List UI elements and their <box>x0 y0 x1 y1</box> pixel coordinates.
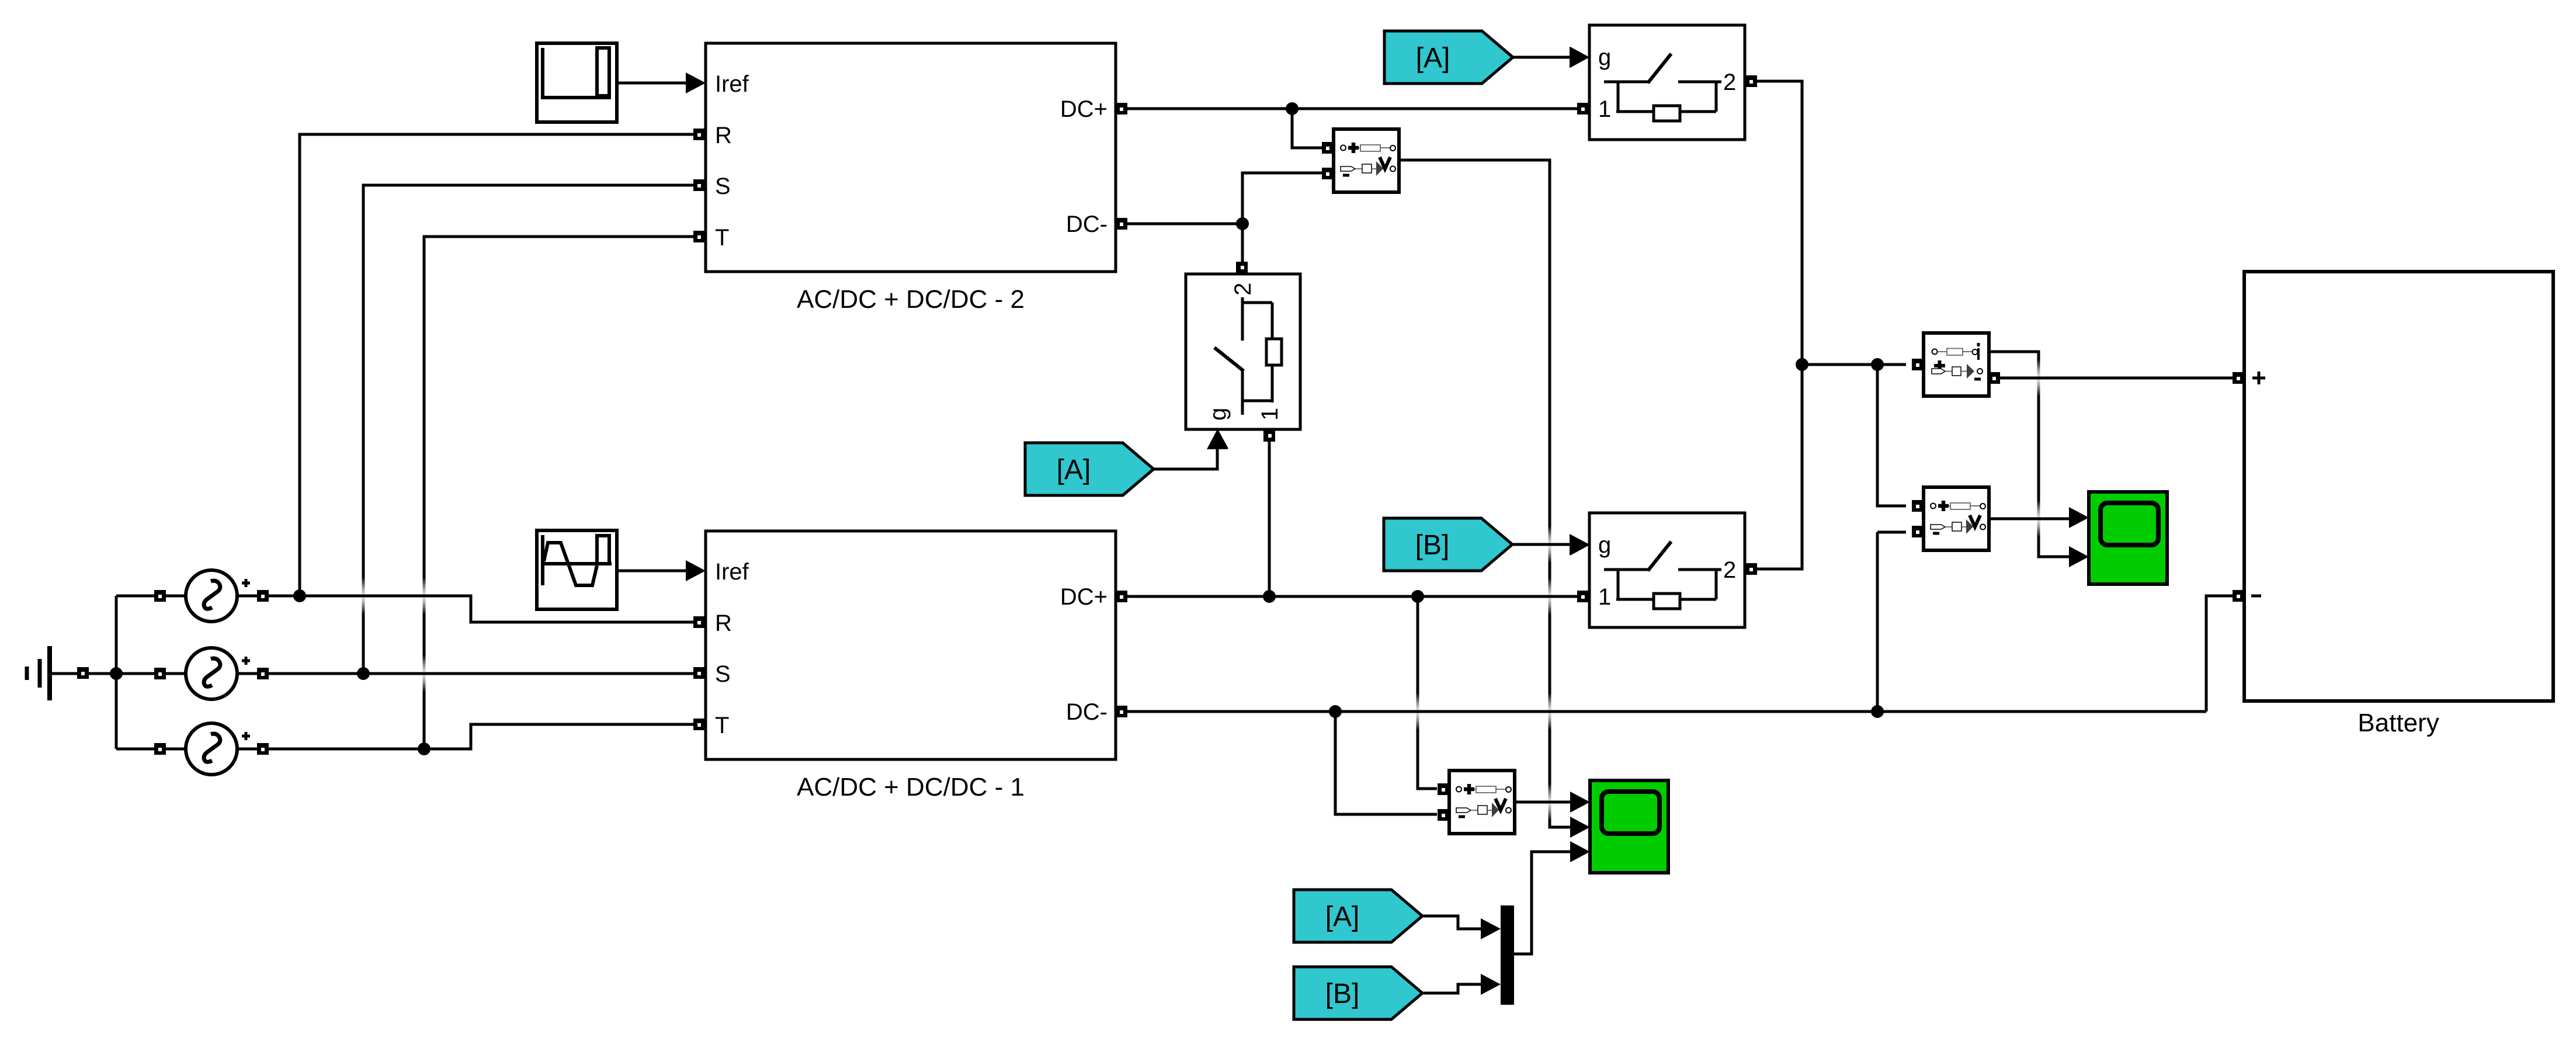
svg-text:[A]: [A] <box>1057 454 1091 485</box>
svg-text:[A]: [A] <box>1416 43 1450 74</box>
svg-text:R: R <box>715 123 732 148</box>
svg-text:DC+: DC+ <box>1060 96 1108 122</box>
svg-text:[A]: [A] <box>1325 901 1360 932</box>
svg-text:S: S <box>715 173 731 199</box>
svg-text:T: T <box>715 225 729 251</box>
svg-text:Iref: Iref <box>715 71 749 97</box>
svg-text:S: S <box>715 661 731 687</box>
svg-text:DC+: DC+ <box>1060 584 1108 610</box>
svg-text:DC-: DC- <box>1066 211 1108 237</box>
svg-text:AC/DC + DC/DC - 2: AC/DC + DC/DC - 2 <box>797 285 1025 314</box>
svg-text:Battery: Battery <box>2358 709 2439 737</box>
svg-text:DC-: DC- <box>1066 699 1108 725</box>
svg-text:[B]: [B] <box>1325 978 1360 1009</box>
svg-text:Iref: Iref <box>715 559 749 585</box>
svg-text:T: T <box>715 713 729 738</box>
svg-text:[B]: [B] <box>1415 530 1450 561</box>
svg-text:R: R <box>715 610 732 636</box>
svg-text:AC/DC + DC/DC - 1: AC/DC + DC/DC - 1 <box>797 773 1025 801</box>
